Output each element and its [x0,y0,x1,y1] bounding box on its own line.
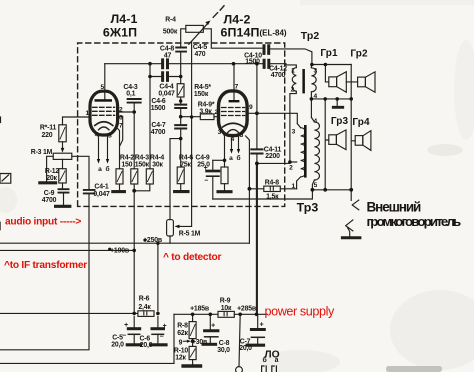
svg-text:0,047: 0,047 [93,191,110,198]
svg-text:−: − [204,178,208,185]
svg-text:R-4: R-4 [165,17,176,24]
wire: C4-9 top to cathode [213,159,225,161]
svg-text:0,1: 0,1 [126,90,135,97]
resistor R-9 [218,311,234,317]
wire: x=134 down to R4-3 [133,112,135,169]
tube V2 plate [229,100,240,102]
speaker Gr4 [355,136,363,146]
resistor R4-4 [146,169,153,184]
tube V2 pin3 cathode wire [222,131,225,167]
svg-text:20,0: 20,0 [140,342,153,349]
svg-text:power supply: power supply [265,305,336,319]
svg-text:+185в: +185в [190,306,209,313]
svg-text:а: а [229,155,233,162]
ground bar under C-9 [56,205,70,208]
wire: plate bus y=63.7 [105,64,296,68]
svg-text:10к: 10к [221,305,232,312]
resistor R5 body [167,220,174,236]
junction (256.5,314.3) [255,313,259,317]
svg-text:4: 4 [313,118,317,125]
capacitor C4-1 [84,190,95,194]
ground bar under R4-2 [113,190,125,193]
svg-text:6: 6 [119,114,123,121]
svg-text:7: 7 [235,83,239,90]
speaker Gr1 [329,77,337,87]
svg-text:C4-9: C4-9 [195,154,210,161]
capacitor C4-4 (series bars lower) [163,73,168,81]
junction (150,76.5) [148,75,152,79]
svg-text:20,0: 20,0 [111,341,124,348]
svg-text:R4-3: R4-3 [135,154,150,161]
external speaker jack bottom [346,220,353,236]
wire: left low bus y=313.4 [0,312,138,314]
svg-text:2200: 2200 [265,153,280,160]
transformer Tp2 core [302,69,305,93]
svg-text:2: 2 [214,109,218,116]
wire: R4-4 bottom to R4-3 node [134,184,150,191]
transformer Tp3 feedback winding [301,128,306,177]
tube V2 grids [222,108,245,116]
svg-text:1: 1 [85,110,89,117]
lamp L0 [236,367,243,372]
resistor R4-6 [180,139,182,167]
svg-text:Гр4: Гр4 [352,117,370,128]
svg-text:+285в: +285в [237,306,256,313]
svg-text:R-6: R-6 [139,296,150,303]
svg-text:б: б [105,165,109,173]
wire: x=325 lower [325,99,329,190]
svg-text:6Ж1П: 6Ж1П [103,26,137,40]
svg-text:3: 3 [292,128,296,135]
junction (256.9,63.7) [255,62,259,66]
svg-text:^to IF transformer: ^to IF transformer [4,260,87,271]
wire: bottom line y=363.4 [0,362,174,364]
svg-text:(EL-84): (EL-84) [259,29,286,38]
wire: Tp3 pin1 lead [297,177,301,189]
svg-text:150к: 150к [194,91,209,98]
svg-text:+: + [204,165,208,172]
junction (210.3,314.3) [209,313,213,317]
capacitor C4-11 [251,149,262,153]
svg-text:150: 150 [121,162,132,169]
resistor R*-11 [59,125,66,142]
transformer Tp2 primary [292,68,296,92]
junction (192.6,341.2) [191,339,195,343]
svg-text:2,4к: 2,4к [138,304,151,311]
capacitor C-5 [133,316,135,327]
wire: node down to +190 rail and R-6 [133,191,135,313]
svg-text:R4-9*: R4-9* [198,101,215,108]
wire: Tp2 pin4 to Tp3 pin4 [310,99,312,118]
junction (145,240.1) [143,239,146,242]
svg-text:громкоговоритель: громкоговоритель [367,214,462,229]
junction (289.9,162) [288,160,292,164]
edge mark [0,223,1,230]
transformer Tp3 secondary [314,122,319,180]
wire: Gr1 link [325,65,357,82]
svg-text:62к: 62к [177,330,188,337]
resistor R4-9 [200,114,214,120]
svg-text:500к: 500к [163,29,178,36]
svg-text:4700: 4700 [271,72,286,79]
tube V2 cathode [223,123,244,127]
svg-text:12к: 12к [175,354,186,361]
svg-text:+: + [163,323,167,330]
svg-text:5: 5 [240,132,244,139]
wire: pot left leg down through C4-5 [181,29,186,84]
wire: Tp3 pin3 lead [297,124,300,128]
svg-text:470: 470 [195,51,206,58]
svg-text:4700: 4700 [42,197,57,204]
junction (240.2,314.3) [238,313,242,317]
svg-text:R4-6: R4-6 [179,154,194,161]
svg-text:R*-11: R*-11 [40,125,57,132]
ground bar under R4-7 [218,190,231,193]
wire: audio input vertical x=89 [0,194,89,349]
tube V1 heater arrows [99,135,108,161]
wire: speaker bus y=99 [311,98,351,100]
svg-text:2: 2 [119,107,123,114]
svg-text:3: 3 [108,132,112,139]
svg-text:1500: 1500 [245,59,260,66]
junction (180.7,116.7) [179,115,183,119]
svg-text:20,0: 20,0 [239,345,252,352]
capacitor C4-12 (series bars in plate wire) [264,60,269,67]
junction (351.2,189.8) [349,188,353,192]
svg-text:C4-1: C4-1 [94,184,109,191]
svg-text:R4-8: R4-8 [265,179,280,186]
svg-text:Тр2: Тр2 [301,30,320,42]
wire: +285 vertical x=257 lower [256,154,258,163]
svg-text:1,5к: 1,5к [266,194,279,201]
potentiometer R-3 [53,153,72,159]
capacitor C-9 [59,189,69,192]
tube V1 plate [95,99,113,102]
svg-text:9: 9 [249,104,253,111]
svg-text:20к: 20к [46,175,57,182]
tube V1 cathode [95,122,113,126]
svg-text:+: + [211,323,215,330]
tube V1 grids [93,107,115,115]
resistor R4-5 [177,84,184,97]
wire: +250 rail [0,242,249,244]
svg-text:а: а [98,166,102,173]
junction (224.5,160.3) [223,159,227,163]
capacitor C4-8 (series bars upper) [163,60,168,68]
wire: y=190 bus [312,189,351,191]
svg-text:R4-4: R4-4 [150,154,165,161]
svg-text:3: 3 [218,129,222,136]
wire: pin9 screen line [248,113,297,123]
speaker Gr2 [358,77,366,87]
svg-text:1: 1 [291,68,295,75]
junction (180.7,76.5) [179,75,183,79]
ground bar under R-10 [183,364,200,368]
svg-text:Гр3: Гр3 [331,116,349,127]
junction (134.2,313.4) [132,312,136,316]
resistor R4-8 [249,188,296,190]
arrowhead on R-5 wiper [175,225,180,229]
svg-text:+190в: +190в [110,248,129,255]
wire: bus ground stub [336,99,338,106]
junction (157.9,243.2) [156,242,159,245]
wire: Tp3 tap2 lead [290,161,297,163]
red annotations [4,217,335,319]
svg-text:5: 5 [314,182,318,189]
wire: coupling line y=76.5 [150,76,181,78]
svg-text:9: 9 [179,339,183,346]
svg-text:Л4-1: Л4-1 [110,12,137,26]
svg-text:C4-4: C4-4 [159,84,174,91]
capacitor C-7 [257,314,259,328]
wire: R-3 right to audio line [72,156,89,189]
svg-text:Гр2: Гр2 [350,49,368,60]
svg-text:150к: 150к [135,162,150,169]
svg-text:C-9: C-9 [44,190,55,197]
junction (325.4,64.5) [324,63,328,67]
svg-text:R-9: R-9 [220,298,231,305]
potentiometer R-4 [186,25,204,32]
junction (256.9,163.4) [255,162,259,166]
capacitor C4-7 [175,125,186,128]
capacitor C4-6 [175,105,186,108]
capacitor C4-3 [128,99,141,103]
dashed diagonal pointer near R-4 [213,6,224,17]
tube V2 envelope [219,91,248,136]
socket marks [262,366,277,372]
capacitor C4-9 [207,170,219,173]
wire: R-6 right vertical [157,243,159,327]
svg-text:R-12: R-12 [45,168,60,175]
svg-text:3,9к: 3,9к [199,109,212,116]
transformer Tp3 core [304,125,307,178]
tube V1 envelope [90,91,118,135]
svg-text:C4-5: C4-5 [193,44,208,51]
edge component artifact [0,174,11,184]
svg-text:7: 7 [119,122,123,129]
wire: lamp feed [239,314,240,366]
wire: speaker top line y=64.5 [312,64,351,66]
capacitor C4-10 (series bars in NFB wire) [264,46,269,54]
svg-text:0,047: 0,047 [158,91,175,98]
wire: power box left [173,314,175,363]
svg-text:C-8: C-8 [219,340,230,347]
capacitor C-8 [209,314,211,329]
wire: C4-11 bottom to Tp3 tap [257,162,290,164]
svg-text:1500: 1500 [151,105,166,112]
svg-text:C4-6: C4-6 [151,98,166,105]
junction (256.9,113.3) [255,111,259,115]
svg-text:C4-7: C4-7 [151,122,166,129]
resistor R4-3 [131,169,138,184]
junction (337.2,98.9) [335,97,339,101]
wire: Tp2 pin2 down to tap [290,91,296,162]
wire: x=150 vertical [149,64,151,169]
junction (109.7,249.2) [108,248,111,251]
wire: x=351 vertical [351,65,355,190]
svg-text:+: + [260,322,264,329]
junction (192.6,314.3) [191,313,195,317]
svg-text:47: 47 [164,52,172,59]
svg-text:6П14П: 6П14П [221,26,260,40]
tube V1 pin2 wire to C4-3 [117,111,134,113]
junction (249.4,188.8) [248,187,252,191]
svg-text:Л4-2: Л4-2 [223,13,250,27]
svg-text:−: − [122,333,126,340]
svg-text:−: − [160,334,164,341]
svg-text:4700: 4700 [151,129,166,136]
svg-text:Гр1: Гр1 [320,48,338,59]
capacitor C4-5 (on pot left leg) [176,48,186,52]
junction (351.2,98.9) [349,97,353,101]
arrow onto R-3 wiper [61,148,65,153]
external speaker jack top [351,190,359,210]
svg-text:3: 3 [313,68,317,75]
svg-text:R-8: R-8 [177,323,188,330]
svg-text:R4-2: R4-2 [120,154,135,161]
svg-text:2: 2 [291,86,295,93]
junction (134.2,250.4) [132,249,136,253]
resistor R4-2 [116,169,123,184]
wire: screen bypass vertical x=257 upper [256,64,258,149]
speaker Gr3 [329,135,337,145]
wire: power bus y=314.3 [174,313,267,315]
svg-text:б: б [262,356,266,364]
svg-text:+250в: +250в [143,237,162,244]
wire: y=199 line [213,190,313,199]
svg-text:R-5 1М: R-5 1М [179,231,201,238]
svg-text:30,0: 30,0 [217,347,230,354]
ground bar under jack [342,236,360,239]
wire: cathode R4-8 column x=249.4 [246,136,250,243]
tube V1 pin7 wire down to R4-2 [117,127,120,168]
svg-text:+: + [124,322,128,329]
wire: +190 rail [0,249,134,251]
wire: C4-7 node left and down to R-5 [170,139,181,220]
junction (325.2,189.8) [323,188,327,192]
svg-text:4: 4 [313,93,317,100]
svg-text:R-10: R-10 [174,347,189,354]
junction (233.5,63.7) [232,62,236,66]
svg-text:4: 4 [231,136,235,143]
junction (191.6,117) [190,115,193,118]
dashed chassis border [78,43,285,206]
svg-text:1: 1 [291,183,295,190]
wire: pot wiper down [176,41,191,226]
svg-text:б: б [236,154,240,162]
svg-text:30к: 30к [152,162,163,169]
wire: V1 grid pin1 to left [63,117,90,125]
svg-text:4: 4 [95,131,99,138]
junction (134.2,190.8) [132,189,136,193]
capacitor C-6 [152,327,164,330]
arrow to 30v node [184,340,189,342]
svg-text:audio input ----->: audio input -----> [5,217,81,228]
svg-text:^ to detector: ^ to detector [163,252,221,263]
svg-text:а: а [275,357,279,364]
ground bar under R4-6 [175,190,188,193]
svg-text:+30в: +30в [192,339,207,346]
resistor R4-7 [221,167,228,184]
junction (325.2,98.9) [323,97,327,101]
svg-text:R4-5*: R4-5* [194,84,211,91]
wire: grid line to R4-9 [181,116,219,118]
junction (311.4,98.9) [310,97,314,101]
svg-text:Внешний: Внешний [367,200,422,215]
svg-text:5: 5 [100,84,104,91]
tube V1 pin6 stub [117,116,122,146]
junction (180.7,101) [179,99,182,102]
junction (312.4,189.8) [311,188,315,192]
junction (134.2,112) [132,110,136,114]
resistor R-6 [138,311,154,317]
resistor R-10 [189,346,196,359]
svg-text:R-3 1М: R-3 1М [31,149,53,156]
junction (311.9,64.5) [310,63,314,67]
svg-text:75к: 75к [180,162,191,169]
svg-text:220: 220 [42,132,53,139]
svg-text:Тр3: Тр3 [297,201,319,215]
wire: NFB line from R-4 to Tp2 pin3 [203,29,312,65]
resistor R-8 [192,314,194,321]
ground bar under R-3 [40,181,56,184]
tube V2 heater arrows [232,137,239,151]
transformer Tp2 secondary [311,68,316,92]
junction (180.7,138.6) [179,137,183,141]
junction (150,63.7) [148,62,152,66]
resistor R-12 [62,159,64,168]
svg-text:2: 2 [289,165,293,172]
junction (157.9,313.4) [156,312,160,316]
wire: R-3 left to ground [47,156,54,181]
